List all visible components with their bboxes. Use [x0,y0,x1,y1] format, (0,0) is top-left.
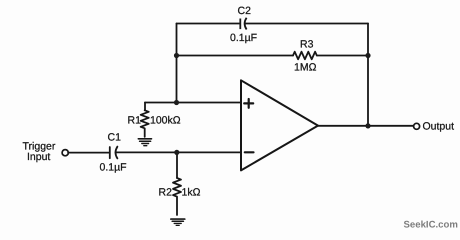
resistor R2 lead top [176,152,178,178]
node dot (noninverting junction) [174,100,179,105]
svg-text:Output: Output [423,121,455,133]
svg-text:1kΩ: 1kΩ [182,187,201,199]
op-amp minus symbol [245,151,254,153]
svg-text:R3: R3 [300,39,314,51]
wire top-left horizontal (to C2 left plate) [177,23,241,25]
resistor R3 zigzag [293,52,317,60]
trigger input terminal [62,150,68,156]
svg-text:R2: R2 [159,187,173,199]
op-amp U1 triangle [241,80,318,170]
svg-text:R1: R1 [128,115,142,127]
wire input to C1 [68,152,109,154]
node dot (R3 feedback junction) [365,53,370,58]
wire top-right horizontal (C2 right plate to feedback) [245,23,368,25]
resistor R1 lead top [144,103,146,111]
wire C1 to inverting input [116,151,241,153]
ground below R1 [138,138,151,140]
wire left vertical (node column x=176.5) [176,24,178,103]
svg-text:0.1µF: 0.1µF [100,162,127,174]
capacitor C2 right plate (curved) [245,18,247,30]
op-amp plus symbol [244,99,253,108]
resistor R2 zigzag [173,178,181,215]
wire feedback vertical x=368 [367,24,369,127]
svg-text:SeekIC.com: SeekIC.com [404,220,458,231]
svg-text:0.1µF: 0.1µF [230,32,257,44]
capacitor C2 left plate [239,19,241,30]
capacitor C1 right plate (curved) [116,147,118,159]
svg-text:C1: C1 [108,132,122,144]
output terminal [414,123,420,129]
node dot (output junction) [365,123,370,128]
wire output row [318,125,414,127]
svg-text:1MΩ: 1MΩ [294,62,317,74]
svg-text:C2: C2 [238,5,252,17]
wire R3 row right [317,55,368,57]
wire R3 row left [177,55,294,57]
node dot (inverting junction) [174,150,179,155]
svg-text:Input: Input [27,151,50,163]
wire noninverting input row [145,102,241,104]
resistor R1 zigzag [141,110,149,137]
node dot (top node / R3 left) [174,53,179,58]
ground below R2 [171,218,185,220]
capacitor C1 left plate [109,147,111,158]
svg-text:100kΩ: 100kΩ [150,115,181,127]
